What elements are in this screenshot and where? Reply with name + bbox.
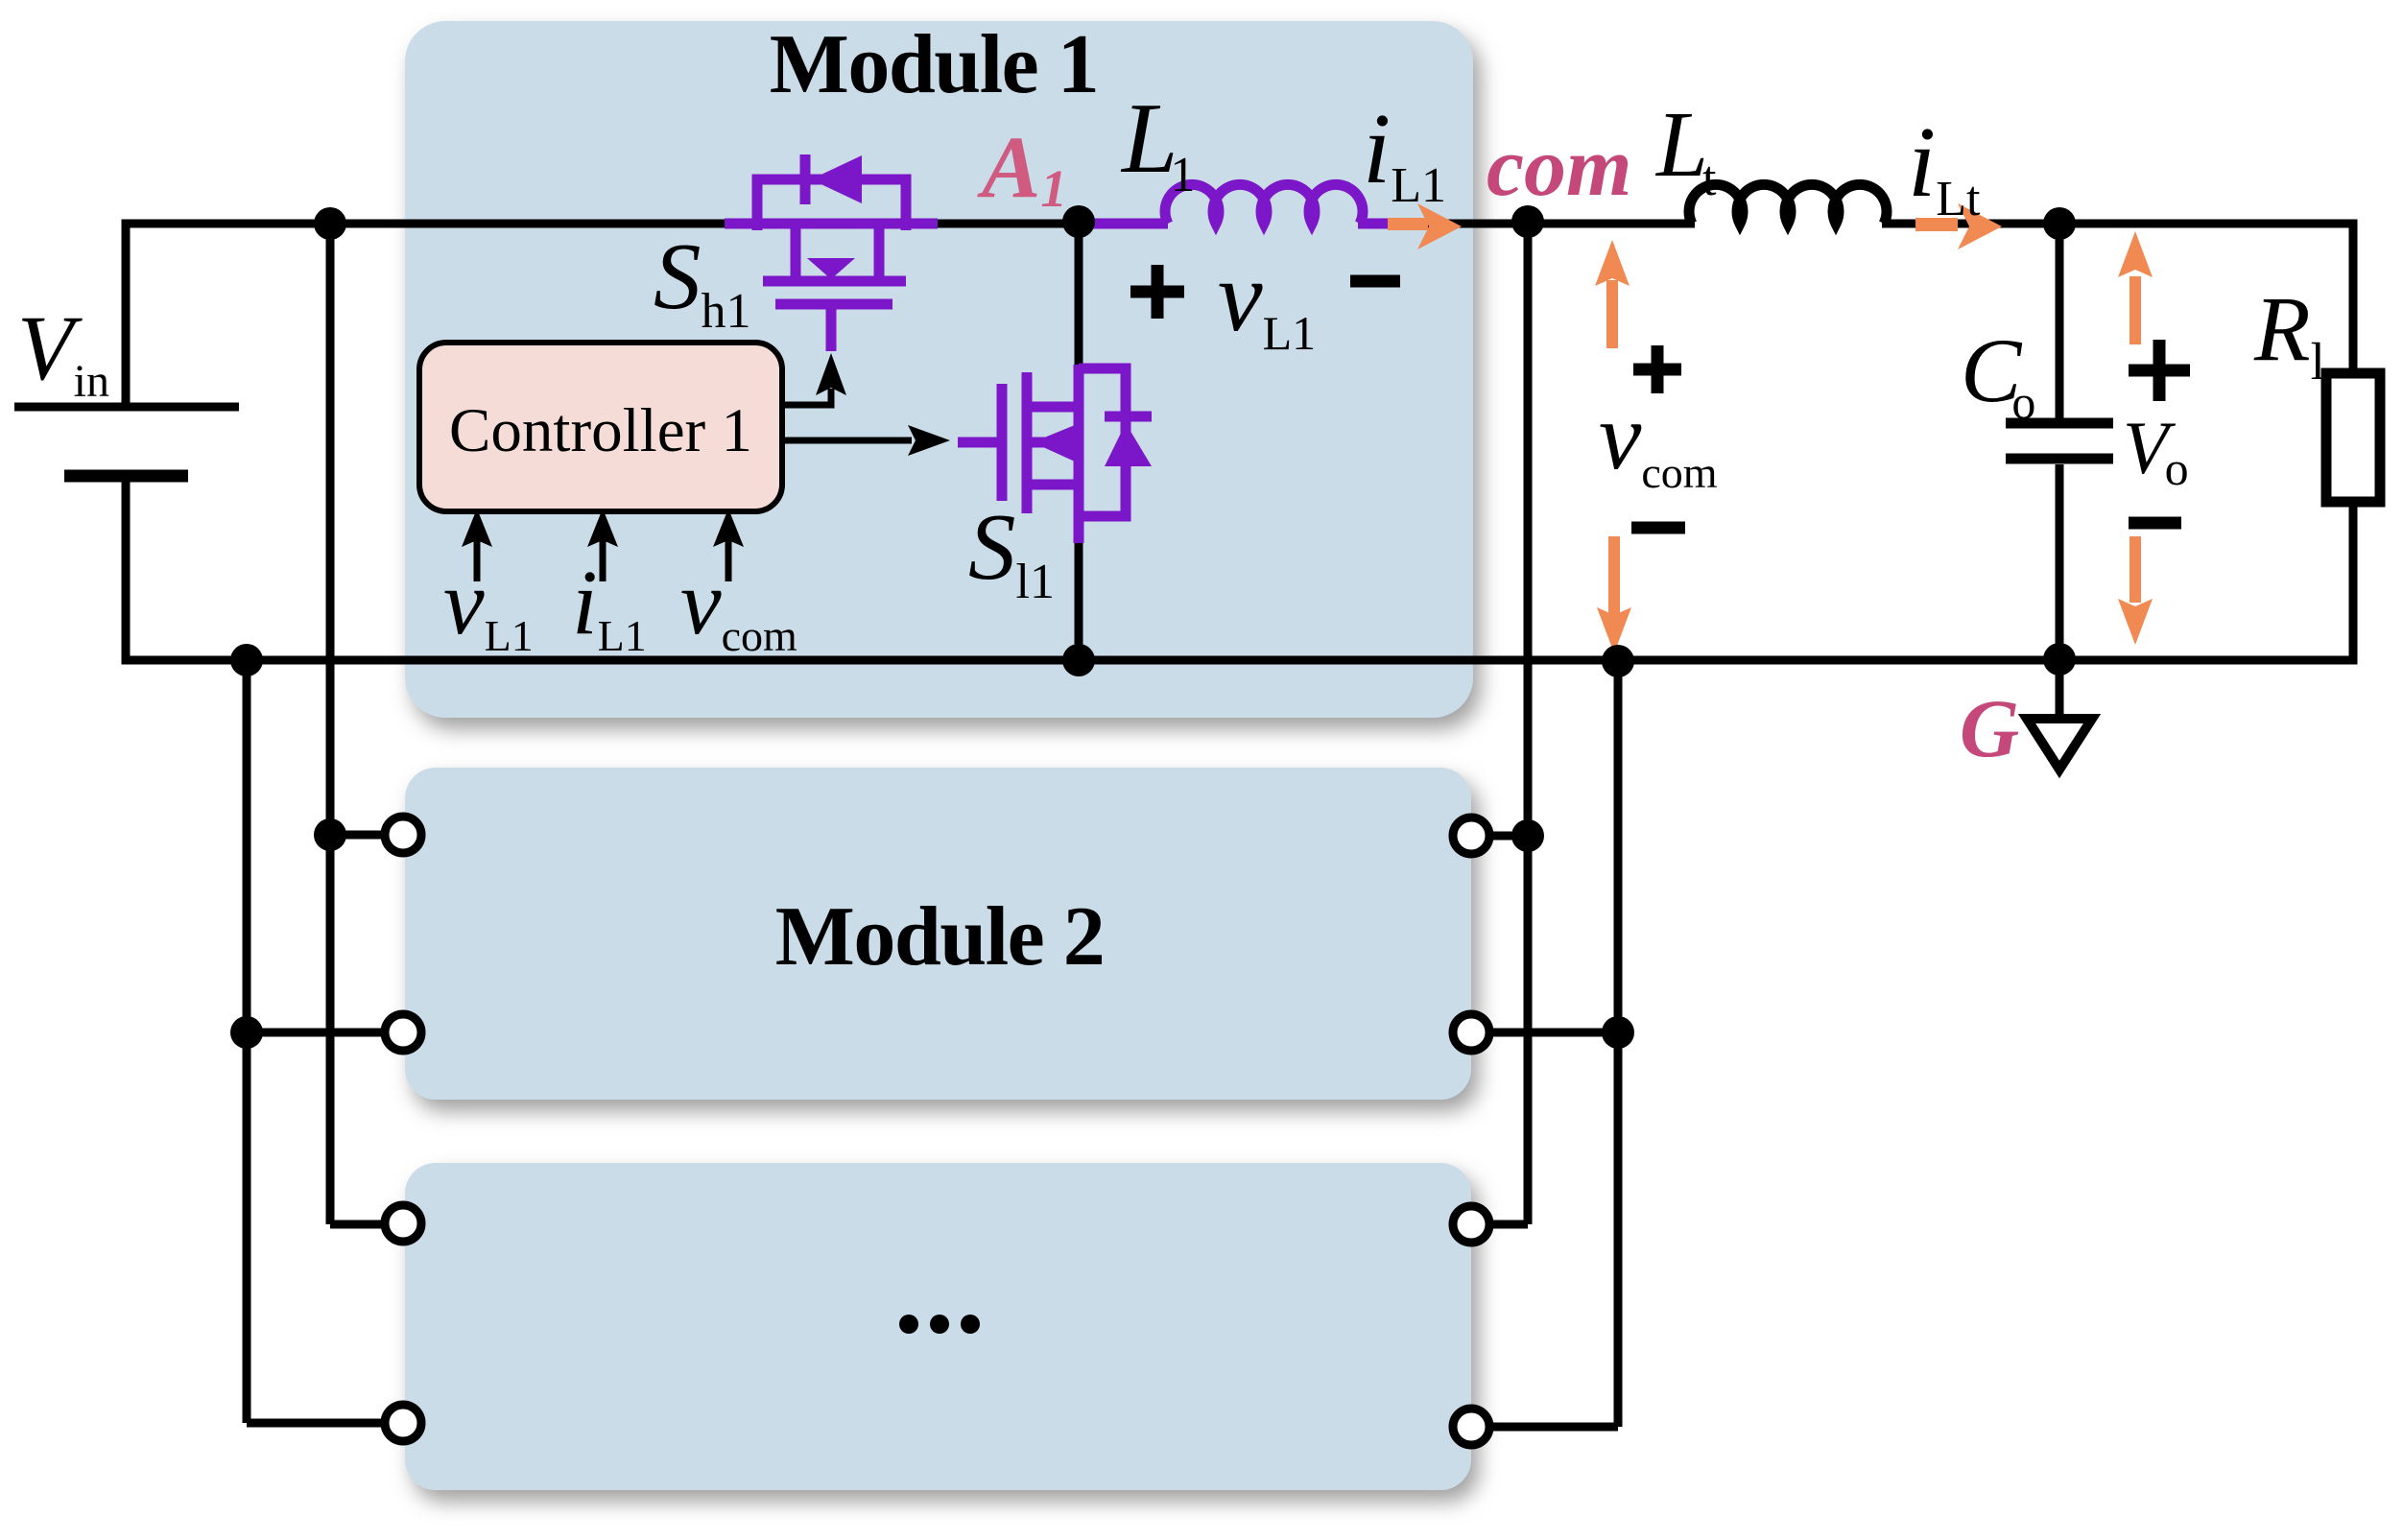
svg-text:Module 1: Module 1 <box>770 18 1098 111</box>
svg-text:Lt: Lt <box>1654 93 1717 206</box>
svg-text:Rl: Rl <box>2253 277 2325 391</box>
svg-text:G: G <box>1960 682 2019 774</box>
svg-text:Co: Co <box>1961 320 2035 429</box>
svg-text:vcom: vcom <box>1599 383 1718 497</box>
svg-text:Vo: Vo <box>2123 406 2189 495</box>
svg-text:Vin: Vin <box>17 296 109 407</box>
svg-text:com: com <box>1487 121 1632 214</box>
svg-text:iLt: iLt <box>1908 106 1981 226</box>
svg-text:Module 2: Module 2 <box>775 890 1104 983</box>
svg-text:Controller 1: Controller 1 <box>449 396 752 465</box>
